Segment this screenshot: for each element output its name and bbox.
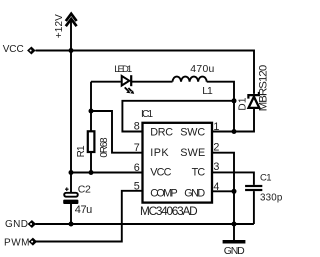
svg-text:COMP: COMP [150,188,178,200]
svg-text:470u: 470u [190,64,214,75]
svg-text:C2: C2 [78,183,91,195]
svg-text:VCC: VCC [3,44,24,55]
svg-text:4: 4 [213,181,219,193]
svg-text:7: 7 [134,142,140,154]
svg-text:SWC: SWC [180,126,205,138]
svg-text:1: 1 [213,121,219,133]
svg-text:L1: L1 [202,86,213,97]
svg-text:MBRS120: MBRS120 [258,65,270,112]
svg-text:DRC: DRC [150,126,173,138]
svg-text:IPK: IPK [150,147,169,159]
svg-text:C1: C1 [260,172,272,183]
svg-text:8: 8 [134,121,140,133]
svg-text:D1: D1 [238,97,249,110]
svg-text:LED1: LED1 [114,64,132,75]
svg-text:PWM: PWM [4,238,30,249]
svg-text:330p: 330p [260,193,283,204]
svg-text:R1: R1 [76,145,87,157]
svg-text:0R68: 0R68 [99,137,110,158]
svg-text:VCC: VCC [150,167,171,179]
svg-text:3: 3 [213,161,219,173]
svg-text:GND: GND [184,188,205,200]
svg-text:TC: TC [192,167,206,179]
svg-text:MC34063AD: MC34063AD [140,204,198,218]
svg-text:IC1: IC1 [141,109,153,120]
svg-text:47u: 47u [75,204,93,216]
svg-text:+12V: +12V [54,14,65,38]
svg-text:5: 5 [134,180,140,192]
svg-text:6: 6 [134,162,140,174]
svg-text:SWE: SWE [180,147,205,159]
svg-text:GND: GND [224,245,245,257]
svg-text:GND: GND [5,219,28,230]
svg-text:2: 2 [213,142,219,154]
